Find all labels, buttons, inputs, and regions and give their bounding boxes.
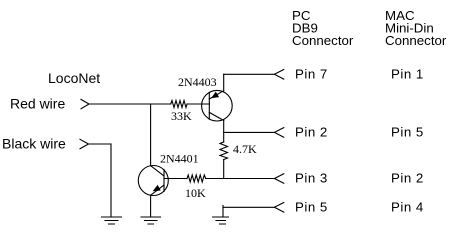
svg-text:Connector: Connector (385, 33, 447, 48)
wire pin2 rail (224, 131, 275, 133)
wire black-wire vertical down (110, 144, 112, 217)
node LocoNet red-wire input arrow (81, 99, 89, 108)
transistor Q2 2N4401 (NPN) (138, 166, 168, 196)
svg-text:Pin 7: Pin 7 (295, 67, 328, 82)
wire Q2 base to 10K (164, 178, 187, 180)
svg-text:10K: 10K (185, 186, 206, 200)
wire junction red-wire to Q2 collector (150, 104, 152, 166)
wire 33K to Q1 base (187, 103, 209, 105)
wire pin5 rail (223, 206, 274, 208)
wire pin2 node down to 4.7K (223, 132, 225, 142)
svg-text:Pin 2: Pin 2 (295, 125, 328, 140)
svg-text:LocoNet: LocoNet (48, 70, 100, 86)
svg-text:2N4401: 2N4401 (160, 152, 199, 166)
svg-text:Pin 5: Pin 5 (295, 200, 328, 215)
node Pin 5 connector arrow (274, 203, 283, 213)
ground G3 (pin5) (213, 206, 229, 225)
svg-text:33K: 33K (171, 109, 192, 123)
svg-text:4.7K: 4.7K (233, 142, 257, 156)
resistor R2 4.7K (220, 142, 228, 160)
svg-text:Red wire: Red wire (10, 96, 65, 112)
wire red-wire horizontal to 33K (89, 103, 171, 105)
wire Q1 collector down to pin2 rail (223, 121, 225, 133)
transistor Q1 2N4403 (PNP) (202, 90, 233, 121)
node Pin 3 connector arrow (274, 174, 283, 184)
svg-text:Pin 3: Pin 3 (295, 171, 328, 186)
ground G1 (black wire) (102, 217, 122, 224)
node Pin 7 connector arrow (274, 70, 283, 80)
node black-wire input arrow (80, 139, 89, 148)
wire pin7 rail (224, 73, 275, 75)
ground G2 (Q2 emitter) (141, 217, 161, 224)
resistor R1 33K (171, 101, 187, 108)
resistor R3 10K (187, 175, 206, 182)
svg-text:Pin 4: Pin 4 (391, 200, 424, 215)
wire black-wire horizontal (89, 143, 112, 145)
wire Q1 emitter up to pin7 rail (223, 74, 225, 90)
wire Q2 emitter down to ground (150, 195, 152, 217)
node Pin 2 connector arrow (274, 128, 283, 138)
svg-text:Pin 5: Pin 5 (391, 125, 424, 140)
svg-text:Pin 1: Pin 1 (391, 67, 424, 82)
wire pin3 rail (206, 178, 275, 180)
svg-text:Connector: Connector (292, 33, 354, 48)
svg-text:2N4403: 2N4403 (178, 75, 217, 89)
svg-text:Black wire: Black wire (2, 135, 66, 151)
wire 4.7K down to pin3 rail (223, 160, 225, 179)
svg-text:Pin 2: Pin 2 (391, 171, 424, 186)
